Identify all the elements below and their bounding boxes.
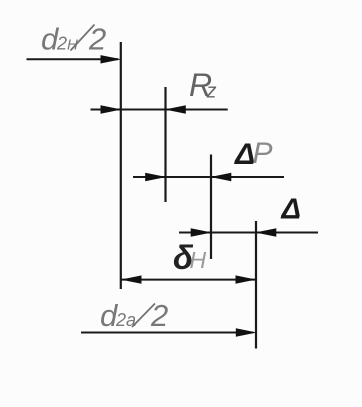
dimension line δн [121, 279, 256, 281]
svg-text:2: 2 [88, 22, 106, 57]
extension line V4 (d2a half-profile) [255, 221, 257, 349]
label d2a/2 [100, 298, 168, 333]
svg-text:P: P [253, 137, 273, 170]
arrowhead Δ left [191, 228, 212, 236]
dimension line Rz [91, 109, 228, 111]
arrowhead δн left [121, 275, 142, 283]
extension line V2 [164, 87, 166, 202]
svg-text:Н: Н [190, 247, 207, 273]
label Rz [189, 67, 217, 103]
label d2a/2 slash [132, 304, 155, 328]
svg-text:Δ: Δ [281, 194, 301, 226]
arrowhead d2н/2 [101, 55, 122, 63]
arrowhead Rz right [165, 105, 186, 113]
label d2н/2 slash [71, 25, 95, 51]
arrowhead ΔP right [210, 173, 231, 181]
svg-text:2: 2 [56, 34, 67, 54]
dimension line ΔP [133, 176, 284, 178]
label d2н/2 [41, 22, 106, 57]
extension line V3 [210, 155, 212, 260]
dimension line d2a/2 [81, 332, 253, 334]
svg-text:z: z [206, 81, 217, 103]
arrowhead d2a/2 [236, 328, 257, 336]
arrowhead Rz left [101, 105, 122, 113]
extension line V1 (d2н half-profile) [120, 42, 122, 289]
svg-text:2: 2 [150, 298, 168, 333]
dimension line d2н/2 [27, 58, 119, 60]
dimension line Δ [179, 232, 318, 234]
arrowhead Δ right [255, 228, 276, 236]
arrowhead δн right [236, 275, 257, 283]
arrowhead ΔP left [145, 173, 166, 181]
